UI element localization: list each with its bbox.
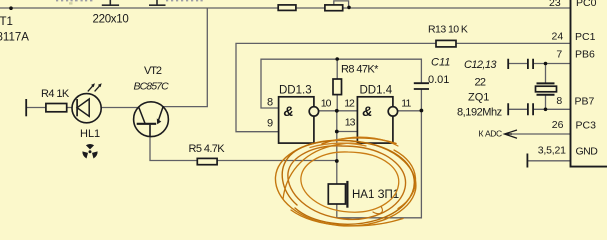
svg-text:PB7: PB7 (575, 96, 595, 108)
svg-text:R13 10 K: R13 10 K (428, 24, 468, 36)
svg-text:23: 23 (549, 0, 561, 9)
svg-text:C12,13: C12,13 (464, 59, 497, 71)
svg-text:8: 8 (267, 97, 273, 109)
svg-text:3,5,21: 3,5,21 (538, 145, 566, 157)
svg-text:7: 7 (556, 49, 562, 61)
svg-text:T1: T1 (0, 16, 13, 28)
svg-text:C11: C11 (431, 57, 450, 69)
svg-text:R5 4.7K: R5 4.7K (189, 143, 226, 155)
svg-text:DD1.4: DD1.4 (360, 85, 393, 97)
svg-text:&: & (284, 103, 294, 119)
svg-text:PC1: PC1 (575, 31, 596, 43)
svg-text:12: 12 (344, 97, 355, 109)
svg-text:24: 24 (552, 31, 564, 43)
svg-text:PC3: PC3 (576, 120, 597, 132)
svg-text:220x10: 220x10 (93, 14, 129, 26)
svg-text:13: 13 (345, 117, 356, 129)
svg-text:PB6: PB6 (575, 49, 595, 61)
svg-text:VT2: VT2 (144, 65, 162, 77)
svg-text:10: 10 (321, 97, 332, 109)
svg-text:GND: GND (576, 146, 599, 158)
svg-text:26: 26 (552, 119, 564, 131)
svg-text:К ADC: К ADC (479, 129, 503, 139)
svg-text:R4 1K: R4 1K (41, 88, 70, 100)
svg-text:22: 22 (475, 77, 486, 89)
svg-text:PC0: PC0 (576, 0, 597, 9)
svg-text:BC857C: BC857C (134, 81, 170, 93)
svg-text:0.01: 0.01 (428, 74, 449, 86)
svg-text:9: 9 (267, 118, 273, 130)
svg-text:R8 47K*: R8 47K* (341, 64, 379, 76)
svg-text:HL1: HL1 (80, 128, 100, 140)
svg-text:ZQ1: ZQ1 (468, 92, 489, 104)
svg-text:HA1 ЗП1: HA1 ЗП1 (352, 189, 399, 201)
svg-text:11: 11 (401, 97, 411, 109)
svg-text:DD1.3: DD1.3 (279, 85, 312, 97)
svg-text:8117A: 8117A (0, 32, 29, 44)
svg-text:&: & (362, 103, 372, 119)
svg-text:8,192Mhz: 8,192Mhz (457, 107, 502, 119)
svg-text:8: 8 (556, 95, 562, 107)
